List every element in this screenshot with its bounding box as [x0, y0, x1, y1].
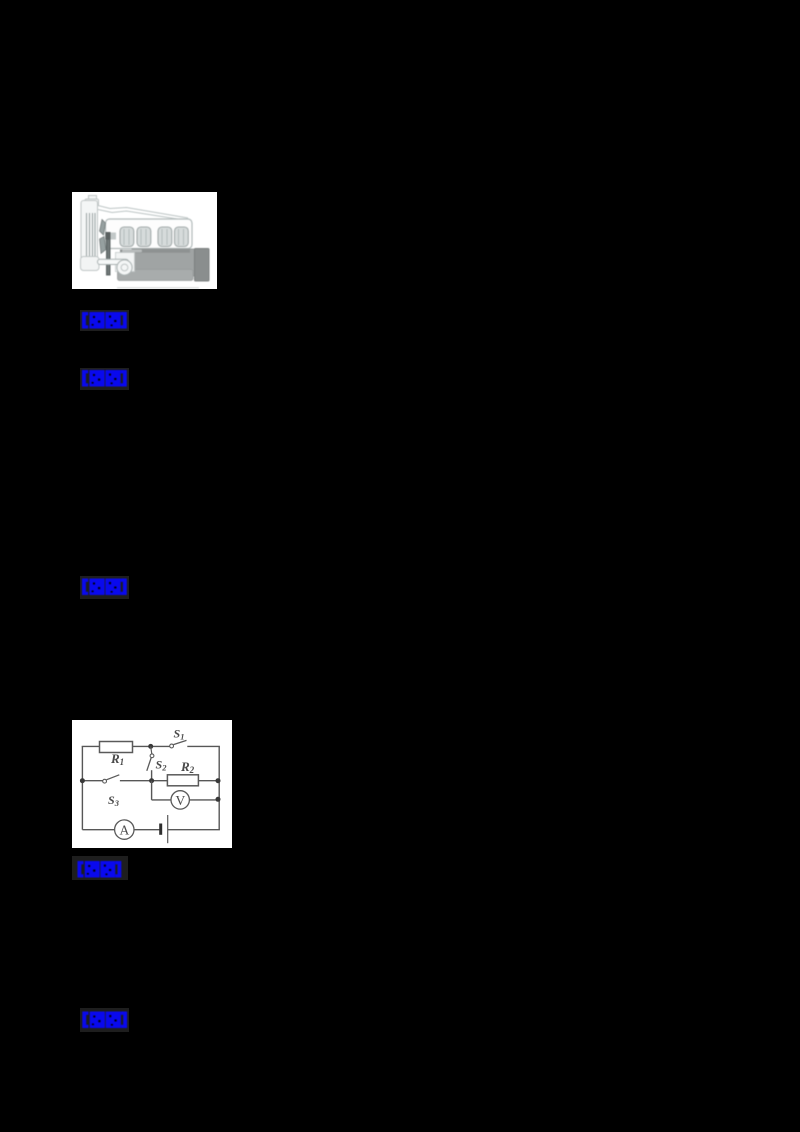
- wire: down to voltmeter: [151, 781, 153, 800]
- answer label 4: [72, 856, 128, 880]
- engine front white panel: [116, 252, 135, 271]
- svg-text:S2: S2: [156, 758, 168, 773]
- hood slope lines: [98, 205, 188, 220]
- radiator top cap: [85, 195, 99, 206]
- wire: S1 to top right corner: [187, 745, 220, 747]
- cylinder 1: [120, 227, 134, 247]
- svg-text:V: V: [176, 793, 186, 808]
- node: right at voltmeter level: [216, 797, 221, 802]
- cylinder 2: [137, 227, 151, 247]
- switch S3: [103, 779, 107, 783]
- wire: R1 to S1: [133, 745, 170, 747]
- water pump: [117, 259, 132, 274]
- crank bracket: [111, 232, 117, 239]
- answer label 1: [80, 310, 129, 331]
- wire: battery to bottom right corner: [168, 829, 220, 831]
- switch S2 (vertical): [151, 746, 152, 754]
- analysis label 5: [80, 1008, 129, 1032]
- answer label 3: [80, 576, 129, 599]
- wire: R2 to right: [198, 780, 219, 782]
- figure: circuit schematic: [72, 720, 232, 848]
- flywheel housing (right dark rect): [195, 248, 210, 281]
- switch S1: [170, 744, 174, 748]
- pulley column: [106, 239, 111, 275]
- intake slot: [122, 249, 142, 252]
- ground shadow: [117, 286, 199, 288]
- radiator body: [81, 200, 98, 263]
- wire: bottom left segment: [82, 829, 114, 831]
- wire: top left to R1: [82, 745, 100, 747]
- oil pan: [118, 269, 194, 280]
- radiator stripes: [87, 213, 96, 257]
- battery negative plate (short thick): [159, 824, 162, 835]
- fan blades: [100, 219, 107, 253]
- wire: middle left segment: [82, 780, 103, 782]
- node: top junction: [148, 744, 153, 749]
- voltmeter V: [171, 791, 189, 809]
- wire: ammeter to battery: [134, 829, 160, 831]
- svg-text:R2: R2: [180, 759, 195, 775]
- wire: left vertical: [81, 746, 83, 829]
- svg-text:S1: S1: [174, 727, 185, 742]
- wire: voltmeter to right: [189, 799, 219, 801]
- engine lower block: [132, 249, 195, 276]
- ammeter A: [115, 820, 134, 839]
- node: middle junction: [149, 778, 154, 783]
- svg-text:R1: R1: [110, 751, 124, 767]
- valve cover: [106, 219, 193, 249]
- node: middle right: [216, 778, 221, 783]
- wire: right vertical: [218, 746, 220, 829]
- figure: engine drawing: [72, 192, 217, 289]
- analysis label 2: [80, 368, 129, 390]
- radiator foot: [81, 256, 100, 270]
- wire: middle to R2: [120, 780, 167, 782]
- lower hose pipe: [98, 259, 129, 264]
- svg-text:A: A: [120, 823, 130, 838]
- resistor R1: [100, 742, 133, 753]
- cylinder 4: [175, 227, 189, 247]
- fan hub: [106, 232, 111, 240]
- resistor R2: [167, 775, 198, 786]
- block top darker strip: [120, 249, 190, 252]
- cylinder 3: [158, 227, 172, 247]
- battery positive plate (long thin): [167, 815, 169, 843]
- node: middle left: [80, 778, 85, 783]
- svg-text:S3: S3: [108, 793, 120, 808]
